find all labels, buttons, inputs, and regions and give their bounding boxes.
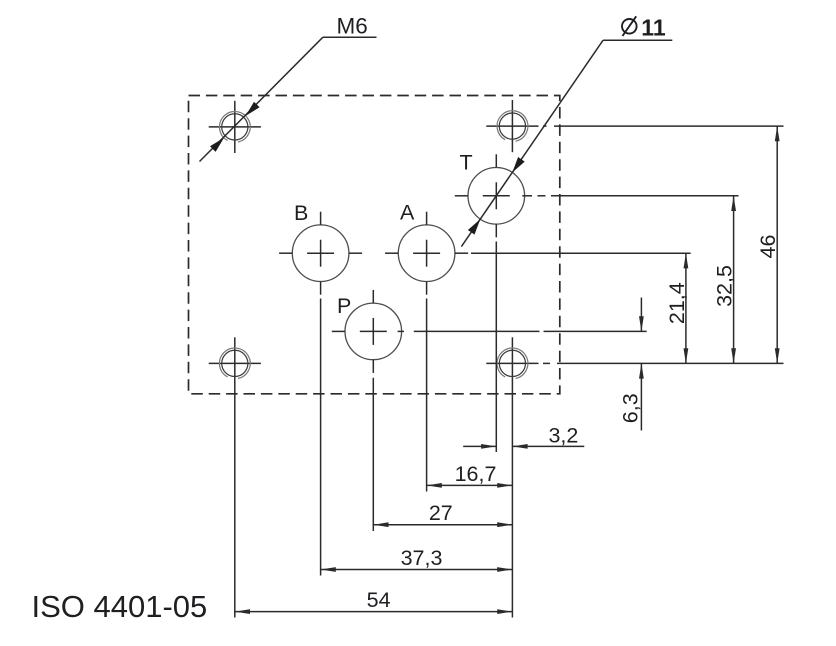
bolt hole BL (M6) circle xyxy=(222,350,248,376)
port T crosshair xyxy=(455,154,532,237)
bolt hole TR (M6) thread arc xyxy=(497,111,528,141)
extension line A/B row to 21,4 dimension xyxy=(471,252,691,254)
extension line P row to 6,3 dimension xyxy=(414,330,647,332)
port P crosshair xyxy=(332,290,404,373)
bolt hole BR (M6) thread arc xyxy=(497,348,528,378)
dimension 32,5 line xyxy=(731,196,736,364)
port P circle xyxy=(345,303,402,360)
leader diameter 11 xyxy=(461,40,672,246)
bolt hole TL (M6) circle xyxy=(222,114,248,140)
svg-text:ISO 4401-05: ISO 4401-05 xyxy=(32,589,208,624)
dimension 21,4 line xyxy=(684,253,689,363)
svg-text:21,4: 21,4 xyxy=(665,282,689,324)
extension line from port A down to 16,7 dimension xyxy=(426,299,428,492)
dimension 27 line xyxy=(373,522,512,527)
extension line left bolt column down to 54 dimension xyxy=(234,390,236,618)
svg-text:A: A xyxy=(400,200,415,224)
port A circle xyxy=(398,225,455,282)
port B crosshair xyxy=(279,212,362,295)
dimension 6,3 line xyxy=(639,298,644,431)
svg-text:P: P xyxy=(337,294,351,318)
svg-text:3,2: 3,2 xyxy=(548,424,578,448)
extension line top bolt row to 46 dimension xyxy=(543,125,784,127)
svg-text:16,7: 16,7 xyxy=(455,462,497,486)
svg-text:32,5: 32,5 xyxy=(713,265,737,307)
extension line from port B down to 37,3 dimension xyxy=(320,299,322,576)
bolt hole BL (M6) crosshair xyxy=(209,337,261,389)
svg-text:6,3: 6,3 xyxy=(619,393,643,423)
bolt hole TR (M6) crosshair xyxy=(486,100,538,152)
svg-text:T: T xyxy=(460,151,473,175)
dimension 16,7 line xyxy=(427,483,513,488)
dimension 54 line xyxy=(235,609,513,614)
bolt hole BR (M6) crosshair xyxy=(486,337,538,389)
dimension 46 line xyxy=(775,126,780,363)
bolt hole TL (M6) crosshair xyxy=(209,101,261,153)
svg-text:37,3: 37,3 xyxy=(401,546,443,570)
port T circle xyxy=(468,168,525,225)
svg-text:B: B xyxy=(294,201,308,225)
svg-text:46: 46 xyxy=(756,235,780,259)
mounting face outline (dashed rectangle) xyxy=(189,96,560,394)
svg-text:M6: M6 xyxy=(337,14,368,39)
bolt hole TR (M6) circle xyxy=(499,113,525,139)
bolt hole BL (M6) thread arc xyxy=(219,348,250,378)
extension line from port T down to 3,2 dimension xyxy=(495,242,497,453)
svg-text:54: 54 xyxy=(367,588,391,612)
port A crosshair xyxy=(385,212,468,295)
svg-text:11: 11 xyxy=(641,14,666,40)
extension line T row to 32,5 dimension xyxy=(538,195,739,197)
bolt hole BR (M6) circle xyxy=(499,350,525,376)
dimension 3,2 line xyxy=(463,444,584,449)
extension line right bolt column down to 54 dimension xyxy=(511,390,513,618)
bolt hole TL (M6) thread arc xyxy=(219,112,250,142)
extension line from port P down to 27 dimension xyxy=(372,378,374,531)
dimension 37,3 line xyxy=(321,567,513,572)
label diameter symbol xyxy=(622,16,637,36)
extension line bottom bolt row to 46 dimension xyxy=(543,362,784,364)
leader M6 xyxy=(200,37,377,161)
svg-text:27: 27 xyxy=(429,501,453,525)
port B circle xyxy=(292,225,349,282)
